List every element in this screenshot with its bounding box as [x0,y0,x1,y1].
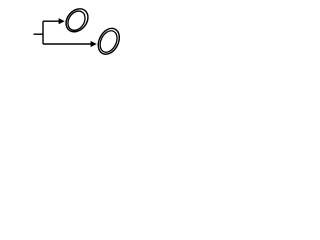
node state ellipse bottom outer [94,25,123,58]
node state ellipse top outer [62,4,93,36]
wire bottom rail [43,43,91,45]
wire vertical branch [42,21,44,44]
arrowhead top [59,18,65,24]
wire input stub [34,33,44,35]
arrowhead bottom [91,41,97,47]
node state ellipse bottom inner [97,28,121,55]
node state ellipse top inner [64,8,88,34]
wire top rail [43,20,59,22]
